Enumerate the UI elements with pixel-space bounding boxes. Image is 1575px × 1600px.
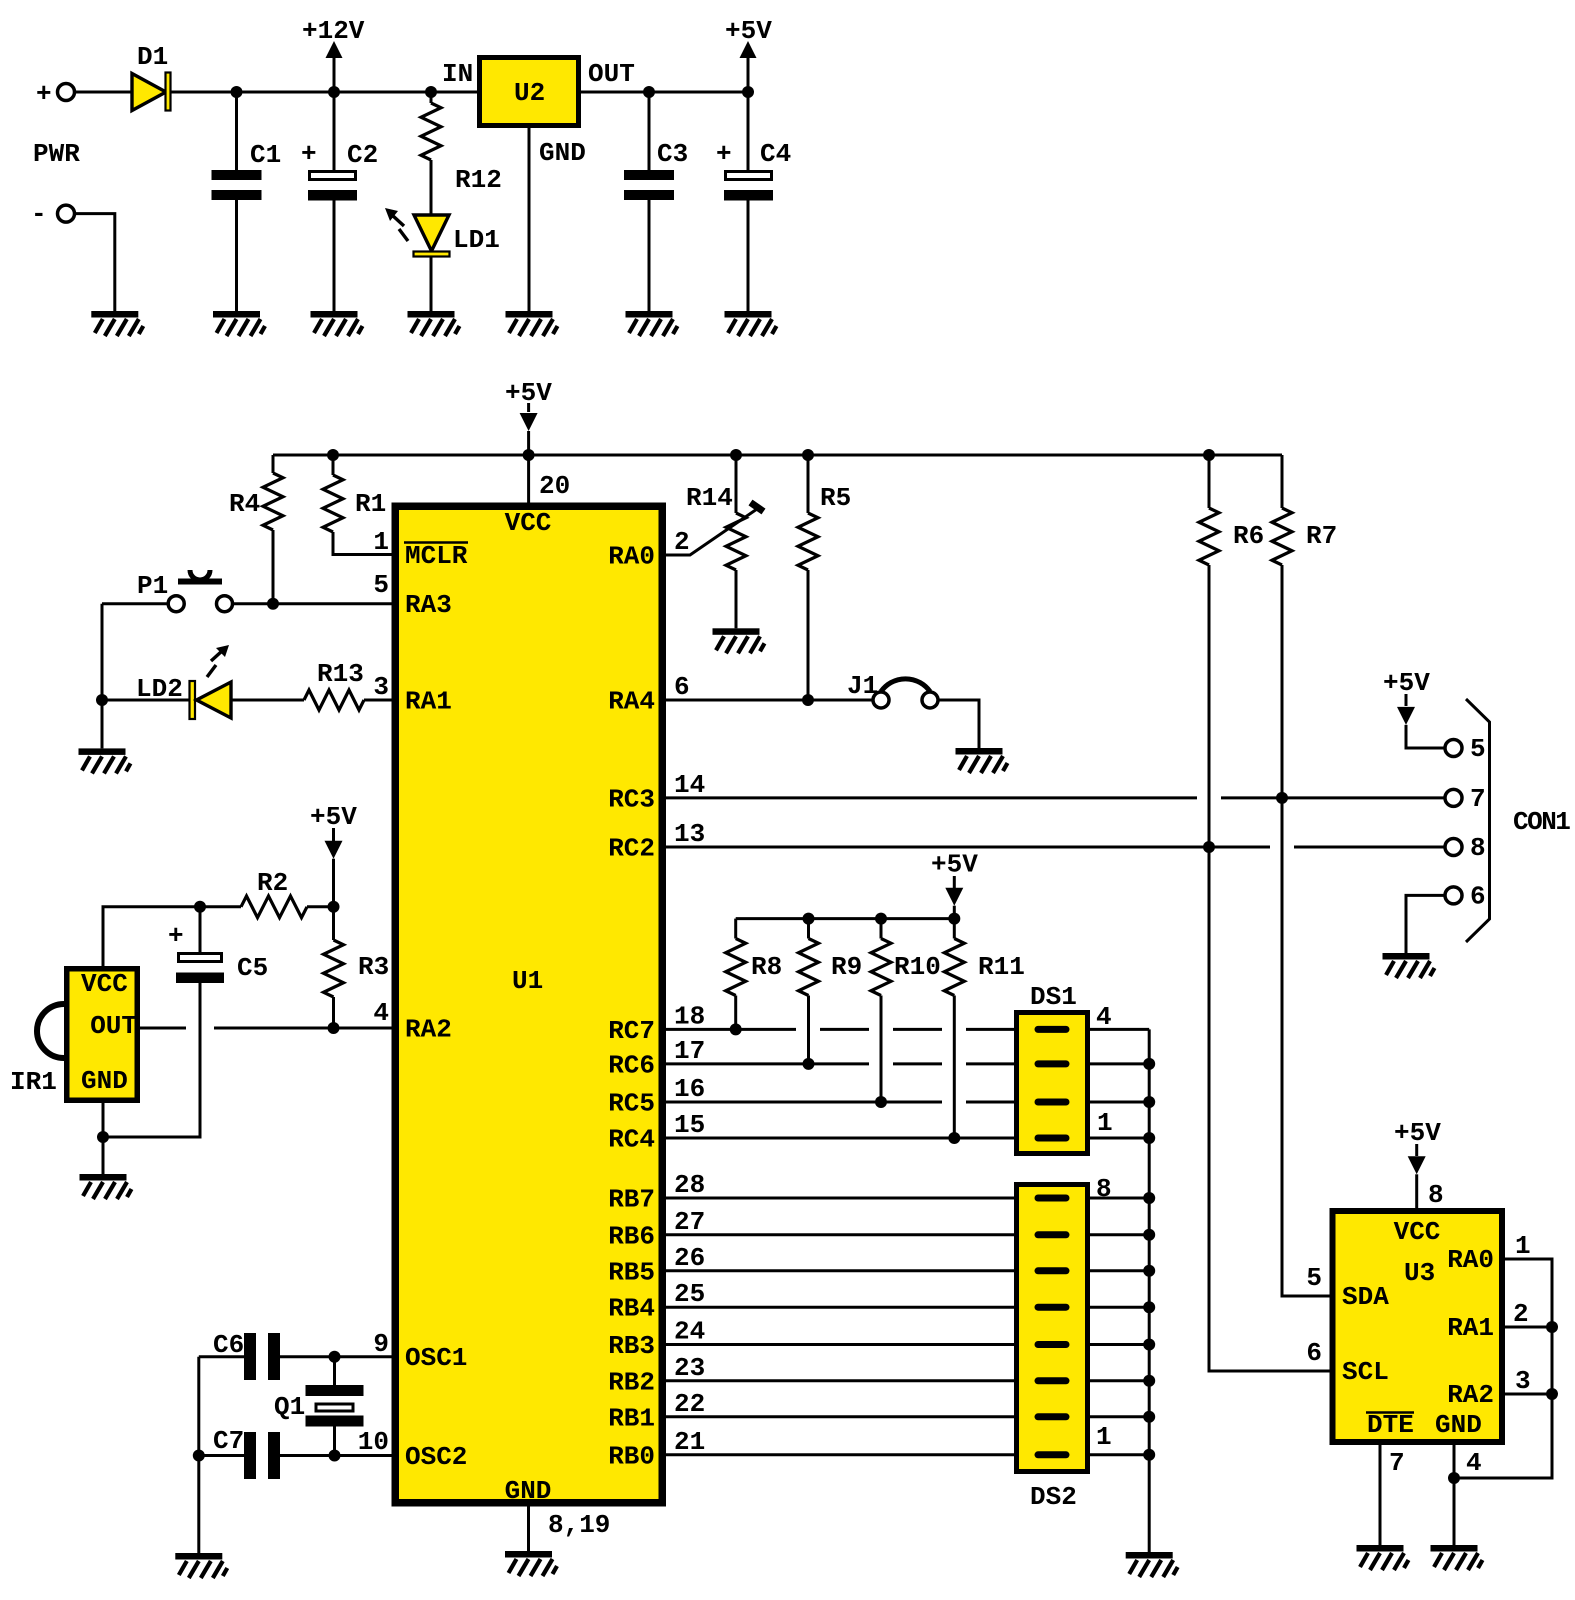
svg-text:LD2: LD2: [136, 674, 183, 704]
diode D1: [132, 74, 166, 111]
power arrow +12V: [326, 41, 343, 58]
display header DS2: [1017, 1185, 1088, 1472]
connector CON1 pin 7: [1445, 789, 1462, 806]
svg-text:R4: R4: [229, 489, 260, 519]
svg-text:+5V: +5V: [725, 16, 772, 46]
svg-text:RB0: RB0: [608, 1441, 655, 1471]
svg-text:U3: U3: [1404, 1258, 1435, 1288]
node RC3/R7: [1276, 792, 1288, 804]
wire C5 top: [199, 907, 202, 954]
wire bus to R9: [807, 919, 810, 939]
pushbutton P1: [168, 596, 184, 612]
svg-text:C1: C1: [250, 140, 281, 170]
svg-text:+: +: [301, 139, 317, 169]
node DS bus tap: [1143, 1058, 1155, 1070]
svg-text:P1: P1: [137, 571, 168, 601]
power arrow CON1 +5V: [1397, 707, 1415, 725]
wire Q1 bottom: [333, 1427, 336, 1456]
svg-text:24: 24: [674, 1317, 705, 1347]
node bus tap: [730, 449, 742, 461]
wire +12V stem: [333, 58, 336, 92]
wire R14 to ground: [735, 570, 738, 628]
wire +5V to R2 node: [332, 859, 335, 907]
wire RC2 seg2: [1294, 846, 1445, 849]
wire DS2 right: [1090, 1233, 1149, 1236]
svg-text:RA1: RA1: [405, 687, 452, 717]
ground: [626, 311, 678, 336]
wire RC7 b: [820, 1028, 869, 1031]
svg-text:14: 14: [674, 770, 705, 800]
wire node to R3: [332, 907, 335, 940]
crystal Q1: [306, 1385, 364, 1396]
wire pin6 to ground: [1406, 895, 1445, 953]
svg-text:-: -: [31, 199, 47, 229]
node R11/RC4: [948, 1132, 960, 1144]
wire R5 to RA4: [807, 570, 810, 700]
svg-text:MCLR: MCLR: [405, 541, 468, 571]
svg-text:6: 6: [1306, 1338, 1322, 1368]
svg-text:RC4: RC4: [608, 1125, 655, 1155]
svg-text:+5V: +5V: [310, 802, 357, 832]
wire +5V stem: [747, 58, 750, 92]
svg-text:RA2: RA2: [1447, 1380, 1494, 1410]
ground: [79, 748, 131, 773]
svg-text:+: +: [168, 921, 184, 951]
node GND loop: [1448, 1472, 1460, 1484]
ground: [311, 311, 363, 336]
svg-text:15: 15: [674, 1110, 705, 1140]
node R bus tap: [875, 913, 887, 925]
node R3/RA2: [328, 1022, 340, 1034]
power arrow IR +5V: [325, 841, 343, 859]
wire DS2 right: [1090, 1197, 1149, 1200]
svg-text:LD1: LD1: [453, 225, 500, 255]
wire D1 to U2 IN: [171, 91, 478, 94]
svg-text:SCL: SCL: [1342, 1357, 1389, 1387]
wire R8 down: [734, 996, 737, 1030]
svg-text:C2: C2: [347, 140, 378, 170]
jumper J1: [873, 692, 889, 708]
svg-text:GND: GND: [539, 138, 586, 168]
svg-text:RA2: RA2: [405, 1015, 452, 1045]
wire bus to R8: [734, 919, 737, 939]
resistor R1: [323, 475, 343, 532]
wire C1 bottom: [235, 200, 238, 311]
svg-text:R2: R2: [257, 868, 288, 898]
svg-text:RB4: RB4: [608, 1294, 655, 1324]
wire RC5 b: [966, 1101, 1014, 1104]
wire C6 to OSC1: [280, 1355, 392, 1358]
svg-text:+5V: +5V: [1383, 668, 1430, 698]
node R5/RA4: [802, 694, 814, 706]
ground: [1383, 953, 1435, 978]
node DS bus tap: [1143, 1339, 1155, 1351]
wire R8-R11 bus: [736, 917, 955, 920]
svg-text:3: 3: [1515, 1366, 1531, 1396]
wire CON1 +5V stem: [1405, 694, 1408, 706]
wire +5V to U3: [1415, 1174, 1418, 1208]
svg-text:27: 27: [674, 1207, 705, 1237]
node bus tap: [802, 449, 814, 461]
svg-text:RB1: RB1: [608, 1403, 655, 1433]
wire C7 left: [199, 1454, 244, 1457]
svg-text:VCC: VCC: [505, 508, 552, 538]
node RA2: [1546, 1388, 1558, 1400]
svg-text:R6: R6: [1233, 521, 1264, 551]
resistor R10: [871, 939, 891, 996]
svg-text:28: 28: [674, 1170, 705, 1200]
ground: [505, 1551, 557, 1576]
node R2/R3: [328, 901, 340, 913]
svg-text:7: 7: [1389, 1448, 1405, 1478]
wire RC7 a: [666, 1028, 796, 1031]
wire bus to R4: [272, 455, 275, 473]
svg-text:5: 5: [1470, 734, 1486, 764]
wire Q1 top: [333, 1357, 336, 1385]
wire IR +5V stem: [332, 828, 335, 841]
svg-text:23: 23: [674, 1353, 705, 1383]
node DS bus tap: [1143, 1301, 1155, 1313]
wire RC7 c: [893, 1028, 942, 1031]
wire RC4: [666, 1137, 1014, 1140]
svg-text:DTE: DTE: [1367, 1410, 1414, 1440]
svg-text:GND: GND: [81, 1066, 128, 1096]
svg-text:13: 13: [674, 819, 705, 849]
wire J1 to ground: [939, 700, 980, 748]
svg-text:2: 2: [674, 527, 690, 557]
capacitor C5: [179, 954, 222, 962]
svg-text:RA3: RA3: [405, 590, 452, 620]
svg-text:7: 7: [1470, 784, 1486, 814]
wire U3 GND pin: [1453, 1445, 1456, 1545]
svg-text:RB7: RB7: [608, 1185, 655, 1215]
wire bus to R14: [735, 455, 738, 513]
svg-text:5: 5: [373, 570, 389, 600]
wire RC7 d: [966, 1028, 1014, 1031]
ground: [1357, 1545, 1409, 1570]
IC U3: [1333, 1211, 1503, 1442]
wire RB line: [666, 1379, 1014, 1382]
resistor R8: [726, 939, 746, 996]
wire RC6 b: [893, 1062, 942, 1065]
node RC2/R6: [1203, 841, 1215, 853]
capacitor C1: [212, 170, 262, 180]
svg-text:22: 22: [674, 1389, 705, 1419]
svg-text:RA0: RA0: [1447, 1245, 1494, 1275]
ground: [1431, 1545, 1483, 1570]
connector CON1 pin 8: [1445, 839, 1462, 856]
svg-text:R12: R12: [455, 165, 502, 195]
svg-text:4: 4: [373, 998, 389, 1028]
wire DS1 right: [1090, 1062, 1149, 1065]
wire C6 left: [199, 1355, 244, 1358]
svg-text:R8: R8: [751, 952, 782, 982]
capacitor C7: [244, 1432, 256, 1479]
node R12/IN tap: [425, 86, 437, 98]
wire bus to R10: [880, 919, 883, 939]
node OSC2/Q1: [329, 1450, 341, 1462]
node R bus tap: [803, 913, 815, 925]
wire C7 to OSC2: [280, 1454, 392, 1457]
svg-text:CON1: CON1: [1513, 807, 1570, 837]
svg-text:RC2: RC2: [608, 834, 655, 864]
svg-text:RB2: RB2: [608, 1367, 655, 1397]
node DS bus tap: [1143, 1449, 1155, 1461]
wire RC2 seg1: [666, 846, 1270, 849]
svg-text:U1: U1: [512, 966, 543, 996]
svg-text:17: 17: [674, 1036, 705, 1066]
wire RB line: [666, 1269, 1014, 1272]
capacitor C6: [244, 1333, 256, 1380]
svg-text:1: 1: [1097, 1108, 1113, 1138]
wire R2 left: [200, 905, 241, 908]
node C1 tap: [231, 86, 243, 98]
wire RC6 a: [666, 1062, 869, 1065]
node R10/RC5: [875, 1096, 887, 1108]
svg-text:OSC1: OSC1: [405, 1343, 467, 1373]
svg-text:SDA: SDA: [1342, 1282, 1389, 1312]
capacitor C3: [624, 170, 674, 180]
wire DS1 right: [1090, 1101, 1149, 1104]
resistor R5: [798, 513, 818, 570]
svg-text:RB6: RB6: [608, 1221, 655, 1251]
wire C2 top: [333, 92, 336, 170]
wire R6 to SCL: [1209, 565, 1330, 1371]
ground: [725, 311, 777, 336]
svg-text:2: 2: [1513, 1299, 1529, 1329]
svg-text:RA1: RA1: [1447, 1313, 1494, 1343]
wire RC6 c: [966, 1062, 1014, 1065]
node DS bus tap: [1143, 1411, 1155, 1423]
svg-text:10: 10: [358, 1427, 389, 1457]
node DS bus tap: [1143, 1375, 1155, 1387]
wire U2 OUT wire: [581, 91, 748, 94]
svg-text:4: 4: [1096, 1002, 1112, 1032]
wire OUT seg2: [214, 1027, 392, 1030]
wire R9 down: [807, 996, 810, 1064]
wire R11 +5V stem: [953, 876, 956, 888]
svg-text:U2: U2: [514, 78, 545, 108]
svg-text:+5V: +5V: [1394, 1118, 1441, 1148]
display header DS1: [1017, 1013, 1088, 1154]
wire RA4 to J1: [666, 699, 873, 702]
node R9/RC6: [803, 1058, 815, 1070]
wire R1 to MCLR: [333, 532, 392, 555]
svg-text:+12V: +12V: [302, 16, 365, 46]
wire C2 bottom: [333, 201, 336, 312]
wire bus to R1: [332, 455, 335, 475]
wire DS1 right: [1090, 1137, 1149, 1140]
svg-text:R9: R9: [831, 952, 862, 982]
wire R10 down: [880, 996, 883, 1103]
resistor R4: [263, 473, 283, 530]
svg-text:20: 20: [539, 471, 570, 501]
svg-text:5: 5: [1306, 1263, 1322, 1293]
svg-text:8: 8: [1470, 833, 1486, 863]
ground: [175, 1553, 227, 1578]
wire U3 DTE pin: [1379, 1445, 1382, 1545]
svg-text:9: 9: [373, 1329, 389, 1359]
wire bus to R11: [953, 919, 956, 939]
wire P1 down: [101, 604, 104, 749]
IC U1: [395, 506, 662, 1503]
wire minus to ground: [75, 214, 115, 311]
svg-text:VCC: VCC: [1394, 1217, 1441, 1247]
svg-text:C4: C4: [760, 139, 791, 169]
wire to LD2: [102, 699, 190, 702]
wire R2 right: [307, 905, 334, 908]
svg-text:R14: R14: [686, 483, 733, 513]
svg-text:OUT: OUT: [588, 59, 635, 89]
power arrow R11 +5V: [945, 888, 963, 906]
wire RA2 wire: [1505, 1393, 1552, 1396]
wire R12 to LD1: [430, 160, 433, 215]
node DS bus tap: [1143, 1132, 1155, 1144]
wire +5V to pin5: [1406, 725, 1445, 748]
wire LD1 to ground: [430, 257, 433, 312]
resistor R13: [304, 690, 364, 710]
svg-text:RA4: RA4: [608, 687, 655, 717]
wire arrow to bus: [953, 906, 956, 919]
svg-text:VCC: VCC: [81, 969, 128, 999]
svg-text:1: 1: [1096, 1422, 1112, 1452]
node DS bus tap: [1143, 1229, 1155, 1241]
resistor R3: [324, 940, 344, 997]
wire R7 to SDA: [1282, 565, 1330, 1296]
ground: [80, 1174, 132, 1199]
node bus tap: [523, 449, 535, 461]
node C7 rail: [193, 1450, 205, 1462]
wire C6C7 left rail: [197, 1357, 200, 1553]
resistor R11: [944, 939, 964, 996]
wire P1 to RA3: [233, 602, 392, 605]
svg-text:DS1: DS1: [1030, 982, 1077, 1012]
svg-text:OSC2: OSC2: [405, 1442, 467, 1472]
wire P1 left: [102, 602, 168, 605]
ground: [1126, 1552, 1178, 1577]
wire bus to R5: [807, 455, 810, 513]
svg-text:3: 3: [373, 672, 389, 702]
potentiometer wiper R14: [666, 509, 757, 555]
wire +5V main stem: [527, 403, 530, 412]
LED LD1: [414, 215, 449, 251]
wire DS2 right: [1090, 1306, 1149, 1309]
svg-text:C7: C7: [213, 1426, 244, 1456]
svg-text:IN: IN: [442, 59, 473, 89]
svg-text:IR1: IR1: [10, 1067, 57, 1097]
connector CON1 bracket: [1466, 699, 1490, 942]
wire RB line: [666, 1306, 1014, 1309]
wire R4 to RA3: [272, 530, 275, 604]
svg-text:RC6: RC6: [608, 1050, 655, 1080]
node DS bus tap: [1143, 1265, 1155, 1277]
node R8/RC7: [730, 1023, 742, 1035]
svg-text:4: 4: [1466, 1448, 1482, 1478]
wire RB line: [666, 1343, 1014, 1346]
svg-text:1: 1: [1515, 1231, 1531, 1261]
node bus tap: [327, 449, 339, 461]
svg-text:Q1: Q1: [274, 1392, 305, 1422]
svg-text:8: 8: [1428, 1180, 1444, 1210]
svg-text:R11: R11: [978, 952, 1025, 982]
LED LD2: [190, 681, 196, 719]
svg-text:C5: C5: [237, 953, 268, 983]
svg-text:RB3: RB3: [608, 1331, 655, 1361]
wire OUT seg1: [140, 1027, 186, 1030]
resistor R7: [1272, 508, 1292, 565]
wire +5V to VCC pin: [527, 431, 530, 503]
svg-text:R7: R7: [1306, 521, 1337, 551]
regulator U2: [480, 58, 579, 126]
power arrow +5V top: [740, 41, 757, 58]
IR receiver IR1: [67, 969, 138, 1101]
svg-text:GND: GND: [1435, 1410, 1482, 1440]
power arrow U3 +5V: [1408, 1156, 1426, 1174]
terminal PWR -: [58, 205, 75, 222]
ground: [506, 311, 558, 336]
svg-text:16: 16: [674, 1074, 705, 1104]
wire R13 to RA1: [364, 699, 392, 702]
node LD2 tap: [96, 694, 108, 706]
node RA1: [1546, 1321, 1558, 1333]
wire RB line: [666, 1233, 1014, 1236]
wire DS1 right: [1090, 1028, 1149, 1031]
svg-text:R13: R13: [317, 659, 364, 689]
capacitor C2: [310, 172, 356, 180]
ground: [956, 748, 1008, 773]
wire bus to R6: [1208, 455, 1211, 508]
svg-text:+5V: +5V: [931, 849, 978, 879]
wire DS2 right: [1090, 1415, 1149, 1418]
wire bus to R7: [1281, 455, 1284, 508]
svg-text:RC7: RC7: [608, 1016, 655, 1046]
node C5/IR1 GND: [97, 1131, 109, 1143]
wire R3 to RA2: [332, 997, 335, 1028]
resistor R14: [726, 513, 746, 570]
wire RB line: [666, 1453, 1014, 1456]
node OSC1/Q1: [329, 1351, 341, 1363]
wire RB line: [666, 1415, 1014, 1418]
ground: [713, 628, 765, 653]
wire C3 top: [648, 92, 651, 170]
svg-text:R10: R10: [894, 952, 941, 982]
node C4 +5V tap: [742, 86, 754, 98]
node R2/C5/IR1: [194, 901, 206, 913]
node C2 +12V tap: [328, 86, 340, 98]
terminal PWR +: [58, 84, 75, 101]
wire C4 top: [747, 92, 750, 170]
svg-text:21: 21: [674, 1427, 705, 1457]
wire LD2 to R13: [231, 699, 304, 702]
svg-text:+: +: [716, 139, 732, 169]
wire RA1 wire: [1505, 1326, 1552, 1329]
wire +5V bus: [273, 454, 1282, 457]
wire RC5 a: [666, 1101, 942, 1104]
node R4/RA3: [267, 598, 279, 610]
wire DS bus: [1148, 1029, 1151, 1552]
wire plus to D1: [75, 91, 133, 94]
svg-text:1: 1: [373, 527, 389, 557]
svg-text:C3: C3: [657, 139, 688, 169]
wire IR1 GND pin: [102, 1100, 105, 1174]
svg-text:J1: J1: [847, 671, 878, 701]
svg-text:DS2: DS2: [1030, 1482, 1077, 1512]
svg-text:6: 6: [1470, 882, 1486, 912]
svg-text:18: 18: [674, 1001, 705, 1031]
wire to IR1 VCC: [103, 907, 200, 966]
IR receiver IR1 dome: [37, 1004, 64, 1058]
resistor R12: [421, 103, 441, 160]
